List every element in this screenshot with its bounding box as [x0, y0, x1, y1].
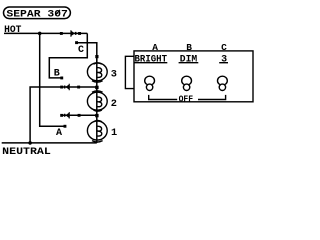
junction node on HOT rail — [38, 32, 42, 36]
wire lamp column vertical — [96, 56, 98, 143]
wire HOT rail — [4, 32, 87, 34]
svg-text:B: B — [54, 68, 60, 79]
lamp 3 circle — [87, 63, 107, 81]
terminal dot diode C anode — [60, 32, 63, 35]
wire from diode C cathode down-left-down to terminal B — [49, 33, 87, 78]
switch panel box — [134, 51, 253, 102]
title box SEPAR 307 — [4, 7, 71, 19]
svg-text:B: B — [186, 42, 192, 53]
svg-text:C: C — [221, 42, 227, 53]
terminal dot node A — [64, 125, 67, 128]
lamp 3 bottom arc — [92, 81, 103, 82]
switch C toggle — [218, 76, 228, 85]
diode A symbol — [64, 112, 70, 118]
diode B symbol — [64, 84, 70, 90]
lamp 2 bottom arc — [94, 110, 102, 111]
diode C symbol — [70, 30, 76, 36]
bracket joining lamps 3 and 2 to panel — [125, 56, 133, 88]
terminal dot diode B anode — [77, 86, 80, 89]
terminal dot diode A cathode — [60, 114, 63, 117]
junction node between lamp 2 and lamp 1 — [95, 114, 98, 117]
lamp 2 filament — [97, 97, 102, 107]
terminal dot node C — [75, 41, 78, 44]
junction node on NEUTRAL rail — [28, 141, 32, 145]
svg-text:DIM: DIM — [180, 55, 197, 66]
lamp 2 circle — [87, 92, 107, 110]
svg-text:A: A — [152, 42, 158, 53]
lamp 3 top arc — [94, 63, 102, 64]
svg-text:1: 1 — [111, 127, 117, 139]
underline BRIGHT — [134, 62, 167, 64]
svg-text:A: A — [56, 128, 62, 139]
terminal dot diode C cathode — [78, 32, 81, 35]
junction node above lamp 3 — [95, 55, 98, 58]
switch A toggle — [145, 76, 155, 85]
terminal dot node B — [60, 77, 63, 80]
switch B toggle — [182, 76, 192, 85]
terminal dot diode A anode — [78, 114, 81, 117]
slash on zero of 307 — [55, 10, 60, 16]
terminal dot diode B cathode — [60, 86, 63, 89]
wire NEUTRAL rail — [2, 142, 97, 144]
underline 3 — [219, 62, 228, 64]
OFF bracket left — [149, 95, 178, 100]
svg-text:C: C — [78, 45, 84, 56]
svg-text:BRIGHT: BRIGHT — [135, 55, 168, 66]
lamp 1 top arc — [94, 121, 102, 122]
underline DIM — [179, 62, 199, 64]
lamp 1 circle — [87, 121, 107, 140]
wire diode B branch from left corner to lamp column — [30, 87, 97, 143]
svg-text:3: 3 — [111, 69, 117, 81]
svg-text:HOT: HOT — [4, 24, 21, 36]
lamp 1 bottom arc — [92, 141, 103, 142]
junction node between lamp 3 and lamp 2 — [95, 86, 98, 89]
wire from terminal C right and down to lamp 3 — [77, 43, 97, 63]
lamp 2 top arc — [92, 91, 103, 92]
lamp 1 filament — [97, 126, 102, 136]
OFF bracket right — [198, 95, 226, 100]
svg-text:2: 2 — [111, 98, 117, 110]
svg-text:OFF: OFF — [179, 93, 194, 104]
svg-text:NEUTRAL: NEUTRAL — [2, 146, 51, 158]
wire HOT junction vertical down to terminal A elbow — [40, 33, 65, 126]
wire diode A branch — [62, 114, 97, 116]
lamp 3 filament — [97, 68, 102, 78]
svg-text:3: 3 — [221, 55, 227, 66]
